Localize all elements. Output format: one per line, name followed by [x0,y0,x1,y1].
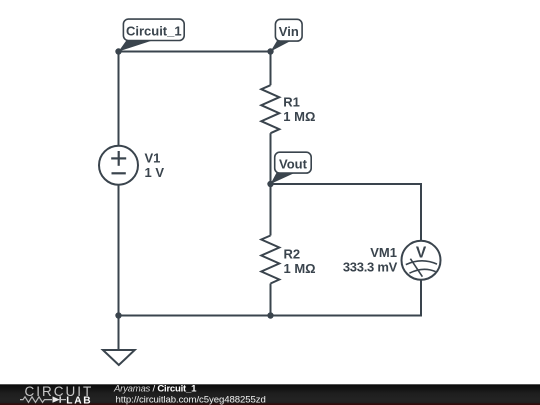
junction dot bottom-left [115,312,121,318]
resistor R2 [261,236,279,284]
junction dot at node Circuit_1 [115,48,121,54]
footer url line [116,395,266,405]
node label Vout (flag) [271,152,312,184]
svg-text:VM1: VM1 [370,245,397,260]
value label R2 / 1 MΩ [284,247,316,276]
wire: R2 bottom lead (R2 to bottom rail) [270,284,272,316]
wire: Vout horizontal to voltmeter branch [271,183,422,185]
svg-text:Vin: Vin [279,24,299,39]
wire: R1 bottom lead (R1 to Vout node) [270,133,272,184]
node label Vin (flag) [271,19,303,51]
svg-text:1 MΩ: 1 MΩ [283,109,315,124]
wire: R2 top lead (Vout node to R2) [270,184,272,236]
svg-text:V1: V1 [145,150,161,165]
svg-text:R2: R2 [284,247,301,262]
wire: left vertical lower (V1 - terminal to bottom rail) [118,185,120,316]
junction dot bottom-middle [267,312,273,318]
svg-text:V: V [416,244,427,261]
value label R1 / 1 MΩ [283,95,315,124]
wire: bottom rail [119,315,423,317]
wire: R1 top lead (Vin node to R1) [270,52,272,86]
wire: top horizontal from node Circuit_1 to node Vin [119,51,271,53]
svg-text:1 V: 1 V [145,165,165,180]
node label Circuit_1 (flag) [119,19,185,51]
junction dot at node Vin [267,48,273,54]
footer bar [0,384,540,405]
voltage source V1 [99,146,138,185]
svg-text:R1: R1 [283,95,300,110]
voltmeter VM1 [402,241,441,280]
resistor R1 [261,85,279,133]
wire: right vertical lower (VM1 to bottom rail) [420,280,422,317]
footer logo CIRCUIT [25,384,94,399]
footer logo LAB [66,396,92,405]
junction dot at node Vout [267,181,273,187]
svg-text:Vout: Vout [279,156,308,171]
svg-text:http://circuitlab.com/c5yeg488: http://circuitlab.com/c5yeg488255zd [116,395,266,405]
svg-text:333.3 mV: 333.3 mV [343,260,398,275]
footer credit line [113,384,197,395]
svg-text:1 MΩ: 1 MΩ [284,261,316,276]
wire: left vertical upper (node Circuit_1 to V1 + terminal) [118,52,120,146]
wire: right vertical upper (corner to VM1) [420,183,422,241]
value label VM1 / 333.3 mV [343,245,398,274]
value label V1 / 1 V [145,150,165,180]
svg-text:Aryamas / Circuit_1: Aryamas / Circuit_1 [113,384,197,395]
footer logo resistor-diode glyph [20,396,66,402]
wire: ground stem [118,316,120,351]
svg-text:Circuit_1: Circuit_1 [126,24,182,39]
svg-text:LAB: LAB [66,396,92,405]
ground [103,350,135,365]
